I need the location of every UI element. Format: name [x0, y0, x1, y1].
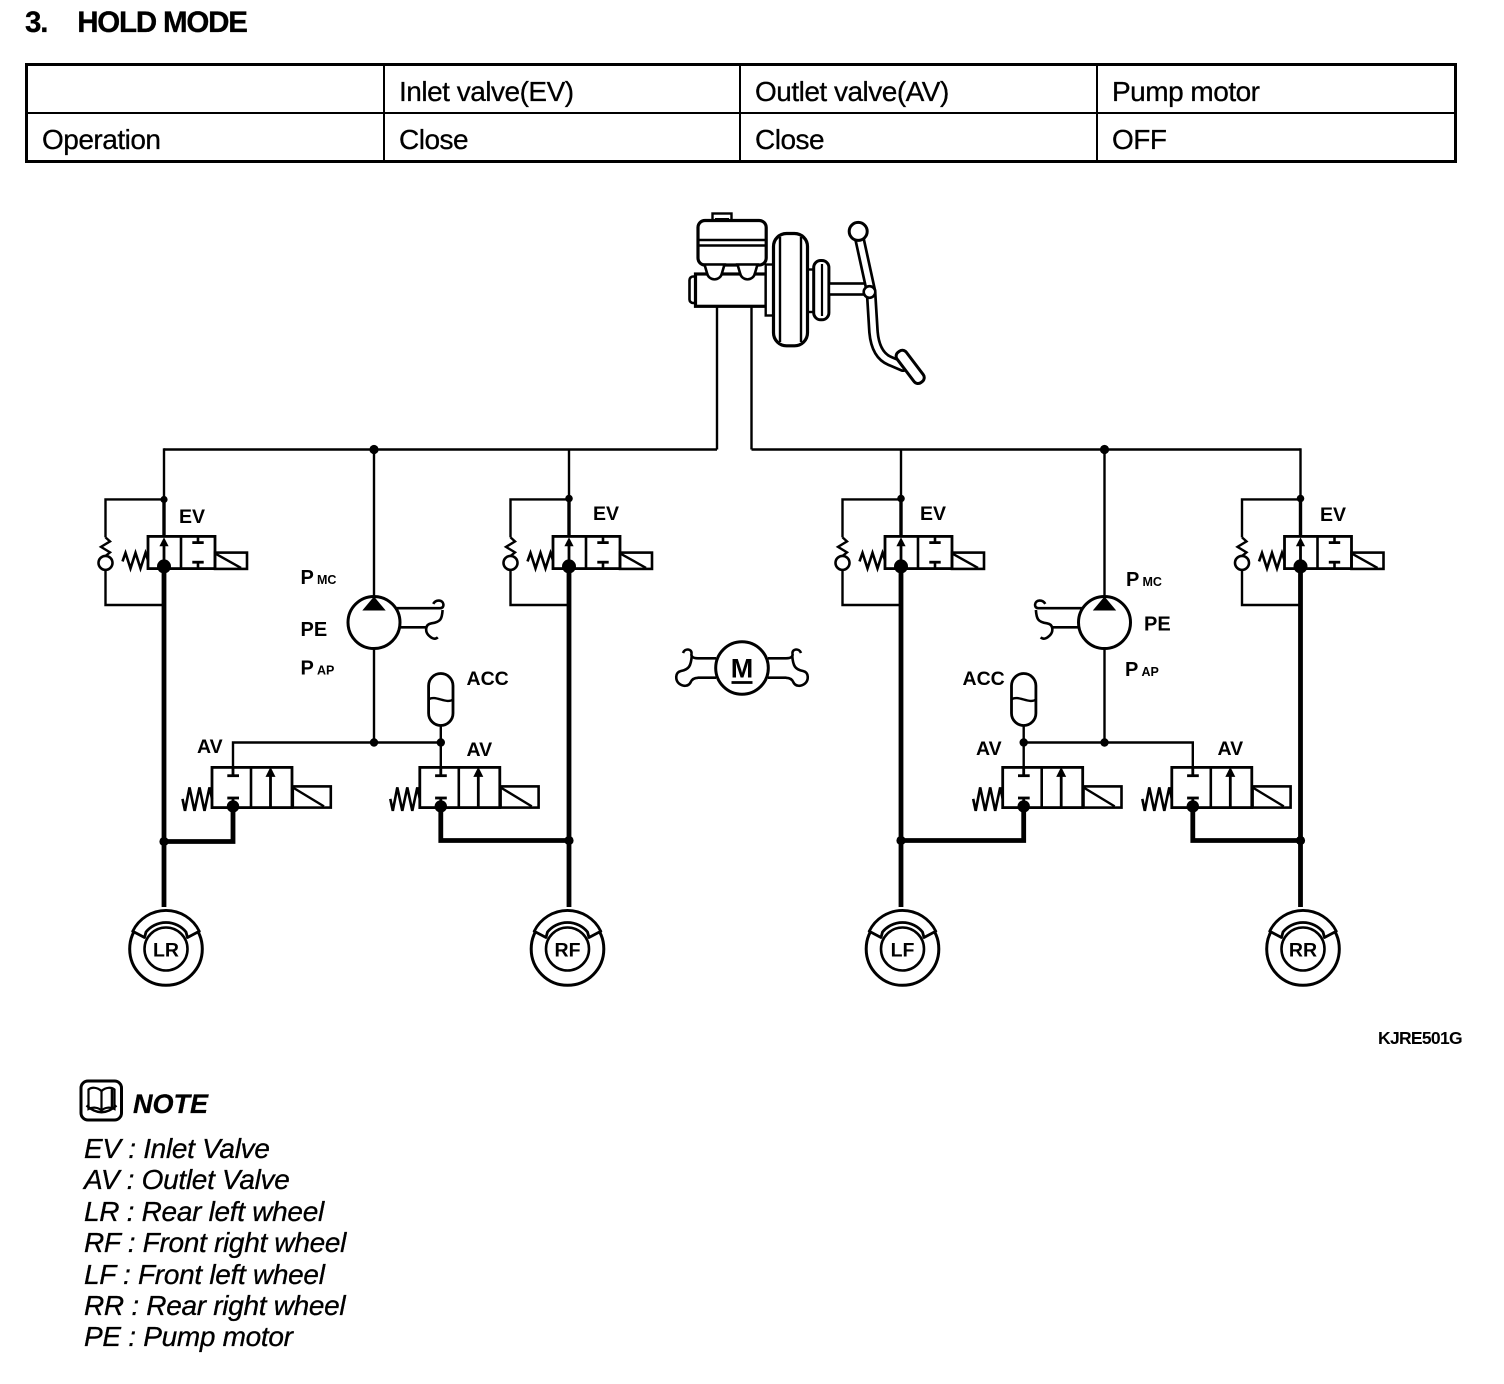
wire: EV3 to wheel LF	[899, 566, 904, 907]
wire: bus to EV1	[163, 448, 165, 499]
wire: EV2 to wheel RF	[567, 566, 572, 907]
pedal pivot joint	[864, 286, 876, 298]
outlet valve AV4	[1142, 767, 1290, 813]
svg-text:AP: AP	[1142, 665, 1159, 679]
check valve bypass CV1	[99, 499, 165, 605]
wire: EV3 feed	[899, 499, 902, 538]
svg-text:AV: AV	[1218, 738, 1244, 760]
wire: AV2 top port	[440, 743, 442, 768]
pedal push rod	[829, 284, 869, 295]
vacuum booster	[774, 234, 808, 346]
wheel RF	[531, 910, 604, 985]
wire: EV1 to wheel LR (pressure held)	[162, 566, 167, 907]
wire: AV1 top port	[233, 743, 441, 768]
svg-text:P: P	[1125, 659, 1138, 681]
brake pedal arm	[858, 232, 903, 367]
outlet valve AV2	[390, 767, 538, 813]
wire: AV3 outlet to LF line	[901, 808, 1024, 841]
legend	[84, 1133, 346, 1353]
svg-text:EV: EV	[593, 503, 619, 525]
booster rear shell	[808, 261, 829, 320]
svg-text:AV: AV	[976, 738, 1002, 760]
pump PE front	[348, 597, 443, 649]
accumulator ACC rear	[1012, 674, 1036, 743]
accumulator ACC front	[429, 674, 453, 743]
svg-text:EV: EV	[1320, 504, 1346, 526]
svg-text:AV: AV	[467, 739, 493, 761]
wire: pump2 to return line	[1103, 649, 1105, 743]
node: AV2 return junction	[564, 836, 573, 845]
inlet valve EV1	[123, 536, 248, 573]
booster mount plate	[766, 265, 774, 316]
node: pump2 return junction	[1100, 738, 1108, 746]
svg-text:P: P	[301, 567, 314, 589]
note header	[133, 1089, 208, 1120]
svg-text:PE: PE	[1144, 614, 1171, 636]
wire: EV1 feed	[162, 500, 165, 538]
wire: rear return line	[1024, 743, 1193, 768]
wire: bus to pump2	[1103, 450, 1105, 598]
svg-text:LR: LR	[153, 940, 179, 962]
node: pump1 return junction	[370, 738, 378, 746]
note icon	[81, 1081, 122, 1120]
pedal arm top bushing	[849, 222, 867, 240]
node: bus to pump2	[1100, 445, 1109, 454]
wire: pump1 to return line	[373, 649, 375, 743]
wheel LF	[866, 910, 939, 985]
master cylinder body	[690, 274, 767, 306]
inlet valve EV3	[860, 536, 985, 573]
wire: AV1 outlet to LR line	[164, 808, 233, 842]
wire: EV2 feed	[567, 499, 570, 538]
wire: EV4 to wheel RR	[1298, 566, 1303, 907]
check valve bypass CV4	[1235, 499, 1301, 605]
svg-text:AV: AV	[197, 736, 223, 758]
reservoir cap	[713, 214, 732, 222]
outlet valve AV3	[973, 767, 1121, 813]
pump PE rear	[1035, 597, 1130, 649]
svg-text:EV: EV	[179, 506, 205, 528]
svg-text:AP: AP	[317, 664, 334, 678]
wire: bus to EV4	[1299, 448, 1301, 499]
wire: bus to EV3	[900, 450, 902, 500]
pump motor M	[676, 642, 808, 695]
wire: EV4 feed	[1299, 499, 1302, 538]
mode table	[25, 63, 1457, 163]
svg-text:P: P	[1126, 569, 1139, 591]
svg-text:M: M	[731, 654, 754, 684]
svg-text:MC: MC	[317, 573, 336, 587]
check valve bypass CV3	[836, 499, 902, 605]
svg-text:P: P	[301, 658, 314, 680]
node: ACC rear junction	[1020, 738, 1028, 746]
check valve bypass CV2	[504, 499, 570, 605]
reservoir ports	[705, 265, 758, 280]
wire: AV3 top port	[1023, 743, 1025, 768]
svg-text:KJRE501G: KJRE501G	[1378, 1028, 1462, 1048]
wire: bus to EV2	[568, 450, 570, 500]
wire: left supply bus	[164, 448, 717, 450]
node: EV3 branch	[897, 495, 905, 503]
svg-text:RR: RR	[1289, 940, 1317, 962]
wheel RR	[1267, 910, 1340, 985]
node: EV1 branch	[160, 496, 167, 503]
wheel LR	[130, 910, 203, 985]
svg-text:ACC: ACC	[963, 668, 1005, 690]
wire: AV4 outlet to RR line	[1193, 808, 1301, 841]
wire: bus to pump1	[373, 450, 375, 598]
wire: right supply bus	[752, 448, 1301, 450]
wire: AV2 outlet to RF line	[441, 808, 569, 841]
node: AV1 return junction	[159, 837, 168, 846]
node: EV4 branch	[1297, 495, 1305, 503]
outlet valve AV1	[183, 767, 331, 813]
svg-text:EV: EV	[920, 503, 946, 525]
wire: MC left outlet down	[716, 306, 718, 450]
svg-text:PE: PE	[301, 619, 328, 641]
svg-text:MC: MC	[1143, 575, 1162, 589]
svg-text:LF: LF	[891, 940, 915, 962]
node: EV2 branch	[565, 495, 573, 503]
inlet valve EV2	[528, 536, 653, 573]
node: ACC front junction	[437, 738, 445, 746]
node: bus to pump1	[369, 445, 378, 454]
node: AV3 return junction	[896, 836, 905, 845]
inlet valve EV4	[1259, 536, 1384, 573]
svg-text:RF: RF	[555, 940, 581, 962]
wire: MC right outlet down	[750, 306, 752, 450]
pedal pad	[894, 348, 926, 385]
brake fluid reservoir	[698, 221, 766, 266]
section title	[25, 6, 247, 40]
svg-text:ACC: ACC	[467, 668, 509, 690]
node: AV4 return junction	[1296, 836, 1305, 845]
